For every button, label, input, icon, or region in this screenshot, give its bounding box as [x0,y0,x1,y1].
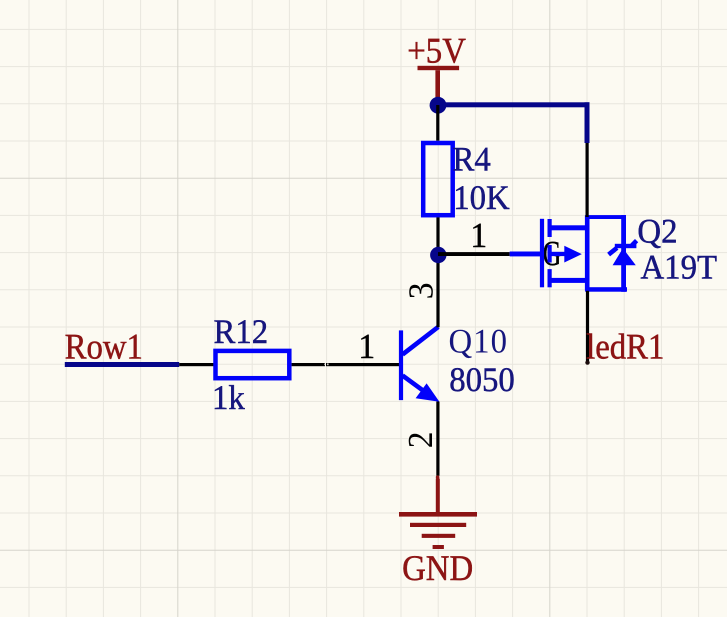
pin end dot [436,475,440,479]
transistor Q2 (MOSFET) [510,216,590,291]
pin 2 (emitter) of Q10 [436,402,439,476]
svg-text:1: 1 [470,217,487,256]
svg-text:1: 1 [358,328,375,367]
ground [399,479,477,590]
junction node [430,97,447,114]
wire junction gap [324,364,325,366]
svg-text:Q10: Q10 [449,323,508,361]
svg-text:Row1: Row1 [65,328,143,368]
pin 3 (collector) of Q10 [436,255,439,327]
pin 1 of R4 [436,105,439,141]
svg-text:R4: R4 [453,141,491,179]
power +5V [407,32,466,106]
pin end dot [585,360,589,364]
svg-text:ledR1: ledR1 [586,328,664,368]
pin (source) of Q2 [586,291,589,363]
junction node [430,247,446,263]
pin 1 (base) of Q10 [326,363,399,366]
pin (drain) of Q2 [586,143,589,217]
svg-text:GND: GND [402,549,473,589]
resistor R12 [216,351,290,378]
svg-text:8050: 8050 [449,362,515,400]
svg-text:3: 3 [402,283,441,300]
pin 1 of R12 [179,363,213,366]
svg-text:+5V: +5V [407,32,466,72]
wire Row1 to R12 [65,362,179,367]
svg-text:2: 2 [402,431,441,448]
pin 2 of R12 [292,363,325,366]
body diode of Q2 [585,215,637,292]
wire +5V node to Q2 drain [438,102,590,107]
pin 2 of R4 [436,217,439,255]
svg-text:A19T: A19T [641,249,718,287]
svg-text:Q2: Q2 [637,213,677,251]
wire node to Q2 gate [438,252,510,256]
svg-text:10K: 10K [453,180,510,218]
resistor R4 [423,143,453,215]
svg-text:1k: 1k [212,380,245,418]
transistor Q10 [399,327,440,402]
svg-text:R12: R12 [214,314,269,352]
